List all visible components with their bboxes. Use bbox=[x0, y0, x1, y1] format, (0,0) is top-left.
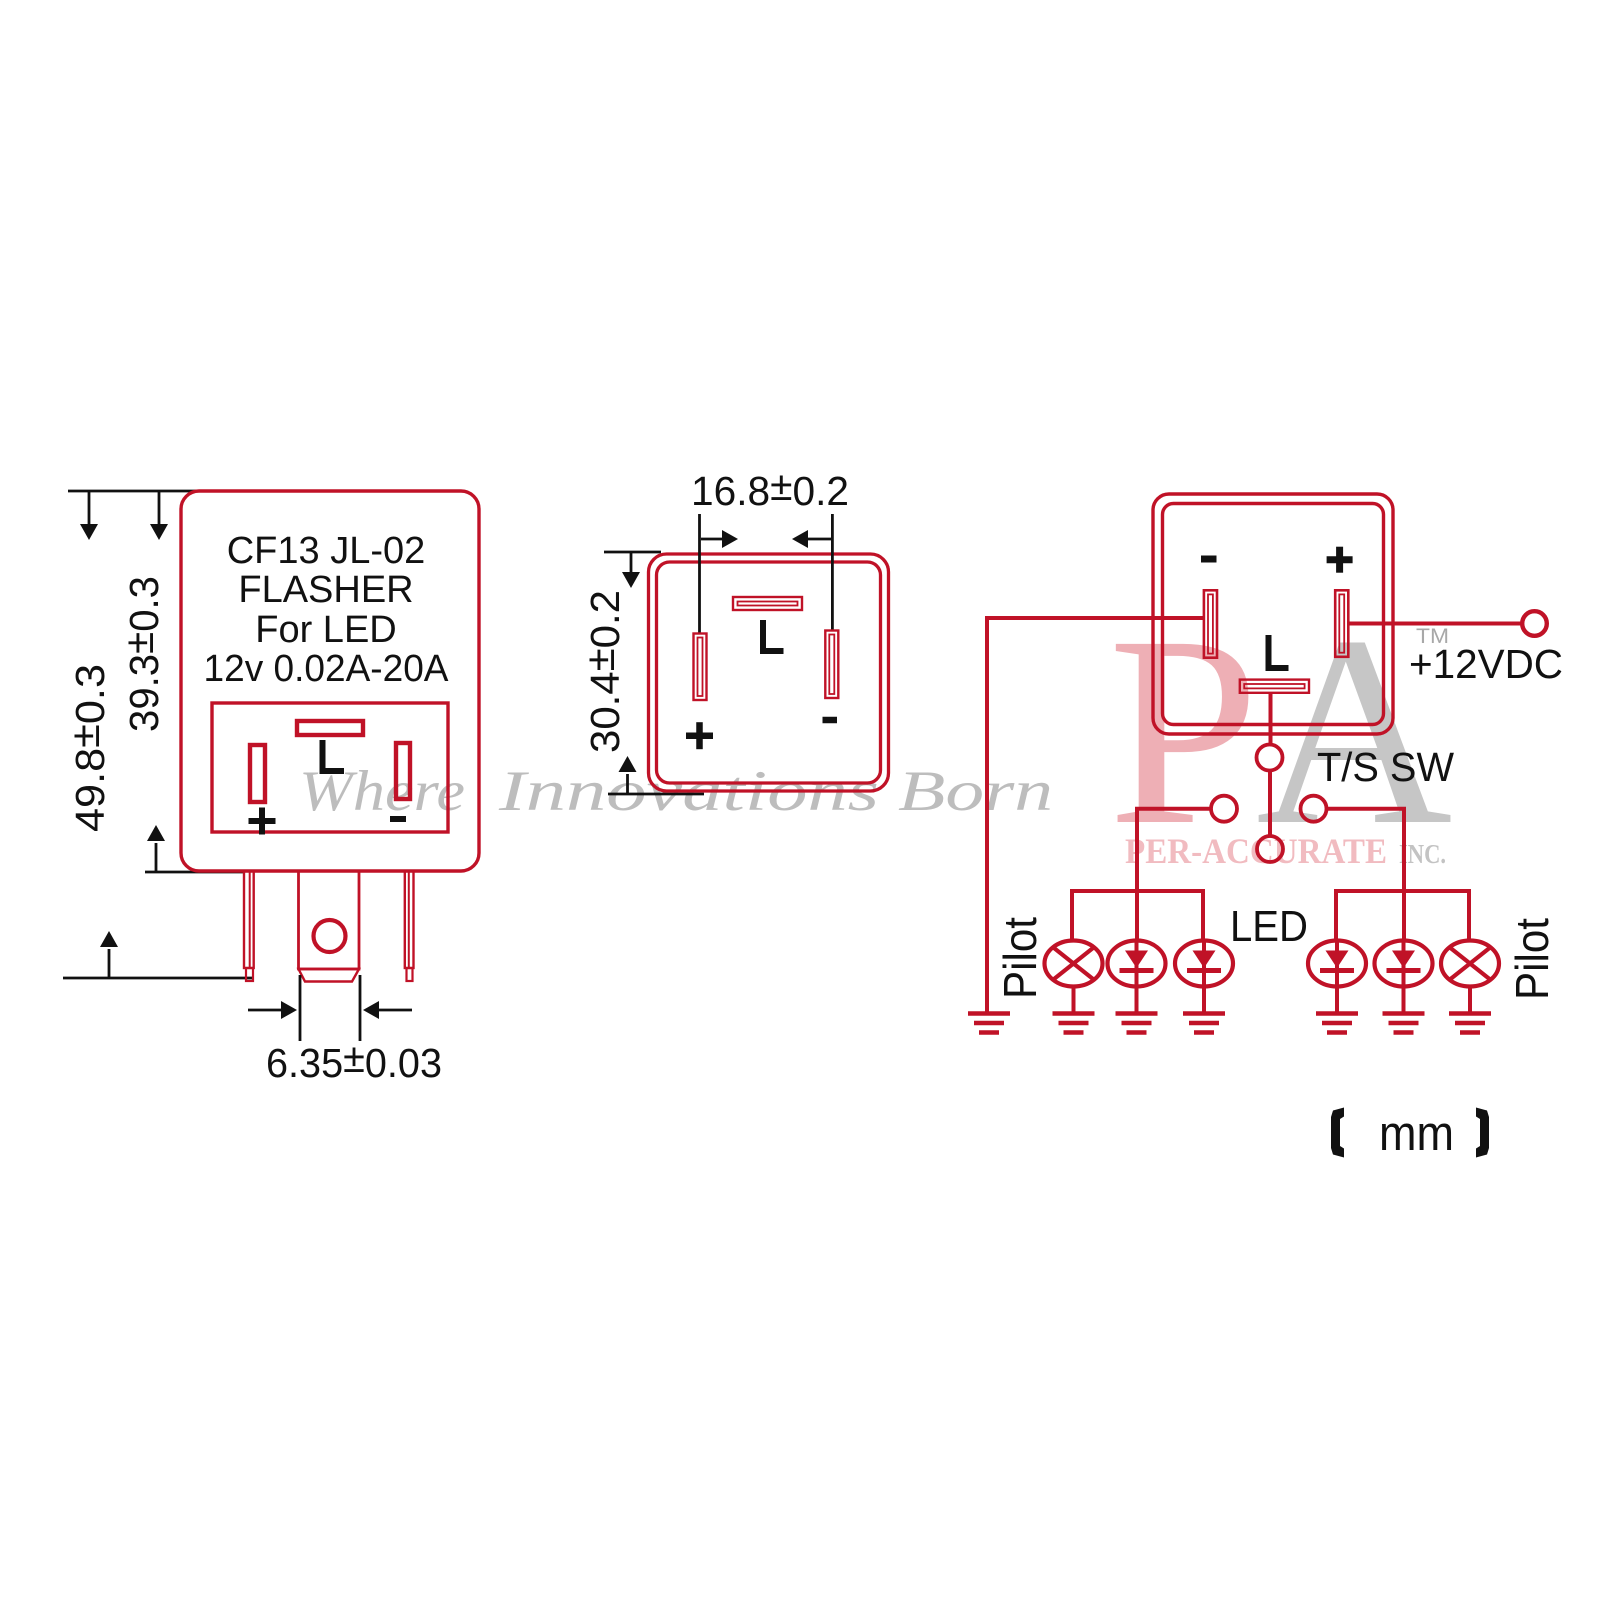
symbol L (relay) bbox=[1269, 635, 1289, 668]
dimension extension line (16.8 right) bbox=[831, 514, 834, 631]
pin blade center bbox=[299, 871, 360, 969]
svg-text:LED: LED bbox=[1230, 902, 1308, 951]
bottom view inner outline bbox=[657, 562, 881, 783]
svg-text:T/S SW: T/S SW bbox=[1317, 744, 1454, 790]
bracket right 】 bbox=[1476, 1108, 1489, 1158]
ground (LED D2) bbox=[1183, 987, 1225, 1033]
terminal slot L bbox=[1240, 680, 1309, 693]
left bank bus wire bbox=[1072, 891, 1203, 941]
switch pole wire bbox=[1268, 770, 1272, 837]
+12VDC terminal circle bbox=[1522, 611, 1547, 636]
wire: - terminal to left rail bbox=[987, 618, 1204, 1013]
dimension arrow right (6.35) bbox=[248, 1009, 281, 1012]
dimension arrow right (16.8) bbox=[701, 538, 724, 541]
svg-text:+12VDC: +12VDC bbox=[1409, 641, 1563, 687]
terminal slot + bbox=[1335, 590, 1348, 657]
switch right throw terminal (circle) bbox=[1301, 796, 1327, 822]
symbol + (relay) bbox=[1327, 556, 1353, 563]
dimension arrow up (49.8 bottom) bbox=[108, 949, 111, 978]
dimension arrow up (39.3 bottom) bbox=[155, 843, 158, 872]
right bank bus wire bbox=[1336, 891, 1469, 941]
LED D1 bbox=[1108, 941, 1166, 987]
switch left throw terminal (circle) bbox=[1211, 796, 1237, 822]
dimension arrow down (30.4 top) bbox=[630, 552, 633, 572]
svg-text:Pilot: Pilot bbox=[1506, 918, 1558, 1000]
relay outline inner bbox=[1163, 504, 1384, 725]
switch common terminal (top circle) bbox=[1257, 745, 1283, 771]
symbol - (relay) bbox=[1201, 556, 1217, 563]
relay body outline (front view) bbox=[181, 491, 479, 871]
svg-text:49.8±0.3: 49.8±0.3 bbox=[62, 664, 113, 832]
terminal slot + (left) bbox=[694, 634, 707, 701]
dimension arrow left (16.8) bbox=[808, 538, 831, 541]
bracket left 【 bbox=[1331, 1108, 1344, 1158]
ground (left rail) bbox=[968, 1014, 1010, 1033]
svg-text:CF13 JL-02: CF13 JL-02 bbox=[227, 530, 426, 572]
svg-text:mm: mm bbox=[1379, 1107, 1454, 1161]
dimension arrow down (39.3 top) bbox=[158, 491, 161, 524]
dimension arrow left (6.35) bbox=[379, 1009, 412, 1012]
terminal slot - (right) bbox=[396, 743, 410, 799]
dimension reference line (top, y=491) bbox=[68, 490, 198, 493]
wire: left throw to left LED bank bbox=[1137, 809, 1212, 941]
symbol + bbox=[249, 818, 276, 824]
dimension arrow down (49.8 top) bbox=[88, 491, 91, 524]
dimension reference line (30.4 top) bbox=[604, 551, 661, 554]
ground (LED D1) bbox=[1116, 987, 1158, 1033]
symbol + bbox=[686, 732, 713, 739]
terminal slot + (left) bbox=[250, 745, 265, 802]
pin center mounting hole bbox=[314, 920, 346, 952]
wire: right throw to right LED bank bbox=[1326, 809, 1405, 941]
dimension reference line (39.3 bottom, y=872) bbox=[145, 871, 243, 874]
LED D2 bbox=[1175, 941, 1233, 987]
symbol L bbox=[763, 620, 784, 651]
pilot lamp 2 bbox=[1441, 941, 1499, 987]
dimension arrow up (30.4 bottom) bbox=[626, 774, 629, 794]
svg-text:Pilot: Pilot bbox=[994, 917, 1046, 999]
ground (LED D4) bbox=[1383, 987, 1425, 1033]
ground (LED D3) bbox=[1316, 987, 1358, 1033]
terminal slot - (right) bbox=[825, 631, 838, 699]
pilot lamp 1 bbox=[1045, 941, 1103, 987]
svg-text:6.35±0.03: 6.35±0.03 bbox=[266, 1035, 442, 1086]
svg-text:INC.: INC. bbox=[1399, 839, 1446, 869]
bottom view outer outline bbox=[649, 554, 889, 791]
dimension extension line (16.8 left) bbox=[698, 514, 701, 633]
svg-text:30.4±0.2: 30.4±0.2 bbox=[577, 590, 628, 753]
svg-text:39.3±0.3: 39.3±0.3 bbox=[116, 576, 167, 732]
pin blade right bbox=[405, 871, 414, 968]
wire: + terminal to +12VDC bbox=[1348, 622, 1521, 626]
svg-text:Born: Born bbox=[898, 760, 1053, 823]
switch bottom terminal (circle) bbox=[1257, 836, 1283, 862]
wire: L terminal down to switch bbox=[1269, 693, 1273, 744]
terminal slot L (top) bbox=[297, 721, 363, 735]
LED D4 bbox=[1375, 941, 1433, 987]
terminal slot - bbox=[1204, 590, 1217, 657]
dimension extension line (6.35 left) bbox=[299, 975, 302, 1041]
svg-text:For LED: For LED bbox=[255, 609, 396, 651]
svg-text:16.8±0.2: 16.8±0.2 bbox=[691, 463, 849, 514]
dimension reference line (30.4 bottom) bbox=[608, 793, 704, 796]
svg-text:FLASHER: FLASHER bbox=[238, 569, 413, 611]
symbol - bbox=[390, 816, 406, 822]
ground (pilot 2) bbox=[1449, 987, 1491, 1033]
terminal slot L (top) bbox=[733, 597, 802, 610]
svg-text:12v 0.02A-20A: 12v 0.02A-20A bbox=[204, 648, 450, 690]
relay outline outer bbox=[1153, 494, 1393, 734]
pin blade left bbox=[244, 871, 254, 968]
pin center bevel tip bbox=[299, 969, 360, 982]
dimension extension line (6.35 right) bbox=[359, 975, 362, 1041]
LED D3 bbox=[1308, 941, 1366, 987]
symbol L bbox=[323, 740, 345, 771]
ground (pilot 1) bbox=[1053, 987, 1095, 1033]
dimension reference line (49.8 bottom, y=978) bbox=[63, 977, 253, 980]
connector face rectangle bbox=[212, 703, 448, 832]
symbol - bbox=[823, 717, 838, 724]
